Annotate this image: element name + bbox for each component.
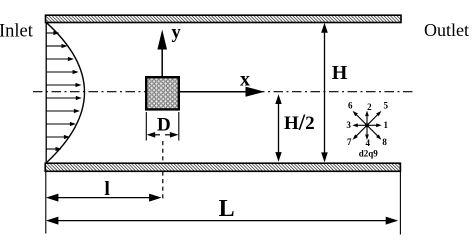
svg-text:l: l <box>104 178 110 200</box>
svg-text:6: 6 <box>348 101 353 111</box>
svg-text:D: D <box>157 114 171 135</box>
svg-text:H/2: H/2 <box>284 110 315 135</box>
svg-text:2: 2 <box>367 102 372 112</box>
svg-text:x: x <box>240 69 250 91</box>
svg-text:L: L <box>219 196 235 222</box>
svg-text:3: 3 <box>346 120 351 130</box>
svg-text:y: y <box>172 23 182 43</box>
svg-text:7: 7 <box>347 137 352 147</box>
svg-text:8: 8 <box>382 137 387 147</box>
svg-text:5: 5 <box>383 101 388 111</box>
svg-text:4: 4 <box>366 138 371 148</box>
svg-text:1: 1 <box>384 120 389 130</box>
svg-text:Inlet: Inlet <box>0 21 34 41</box>
svg-text:d2q9: d2q9 <box>359 149 379 159</box>
svg-text:Outlet: Outlet <box>424 20 469 40</box>
svg-text:H: H <box>332 62 348 84</box>
